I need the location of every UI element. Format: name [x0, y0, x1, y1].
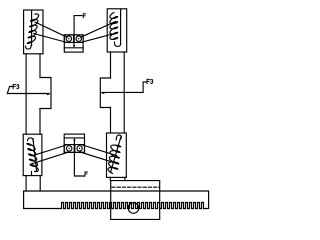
cable bottom-right lower [81, 152, 119, 164]
arrow up inside bottom block [73, 138, 75, 145]
left jaw tab [40, 78, 51, 109]
pulley top-right [76, 36, 81, 41]
cable top-left upper [35, 22, 67, 37]
label F3 left [13, 85, 16, 89]
cable bottom-left upper [33, 145, 67, 156]
force F leader bottom [74, 152, 84, 176]
label F top [83, 14, 85, 18]
force F3 left leader [7, 87, 51, 96]
left clamp member inner edge [39, 54, 41, 134]
label F3 right [147, 79, 150, 83]
pinion housing box [111, 181, 160, 220]
rack bar with teeth [24, 191, 209, 209]
force F3 right leader [100, 82, 146, 94]
cable bottom-right upper [82, 145, 117, 156]
pulley top-left [66, 36, 71, 41]
pulley bottom-right [77, 146, 82, 151]
cable top-right lower [80, 33, 117, 43]
rod below bottom-right box [110, 177, 125, 180]
label F bottom [85, 172, 87, 176]
cable top-right upper [81, 22, 116, 38]
right jaw tab [100, 78, 110, 108]
right clamp member outer edge [123, 52, 125, 133]
force F leader top [74, 16, 82, 35]
left clamp member outer edge [25, 54, 27, 134]
pinion gear [128, 203, 139, 214]
pulley bottom-left [67, 146, 72, 151]
rod below bottom-left box [26, 176, 40, 191]
arrow down inside top block [73, 42, 75, 47]
spring box bottom-left [23, 134, 42, 175]
spring box bottom-right [107, 133, 127, 177]
hidden line in housing (dashed) [112, 186, 159, 188]
spring box top-right [107, 9, 127, 52]
pulley block bottom [64, 134, 84, 152]
cable top-left lower [34, 34, 68, 43]
spring box top-left [24, 10, 43, 54]
pulley block top [64, 35, 83, 52]
right clamp member inner edge [110, 52, 112, 133]
cable bottom-left lower [31, 152, 68, 164]
